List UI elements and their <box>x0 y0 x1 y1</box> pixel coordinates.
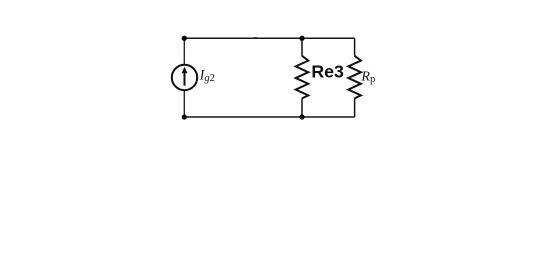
current source Ig2 <box>172 65 197 90</box>
junction dot top-left <box>182 36 187 41</box>
resistor Rp <box>348 38 361 117</box>
wire top: node A to node B <box>184 37 355 39</box>
wire left bottom (out of current source) <box>183 90 185 117</box>
junction dot top-mid <box>299 36 304 41</box>
junction dot bottom-mid <box>299 114 304 119</box>
wire bottom: node C to node D <box>184 116 355 118</box>
tick mark on top wire <box>251 37 260 38</box>
resistor Re3 <box>296 38 309 117</box>
junction dot bottom-left <box>182 114 187 119</box>
svg-text:Rp: Rp <box>360 70 375 85</box>
svg-text:Re3: Re3 <box>311 62 344 82</box>
wire left top (into current source) <box>183 38 185 65</box>
svg-text:Ig2: Ig2 <box>199 68 215 85</box>
